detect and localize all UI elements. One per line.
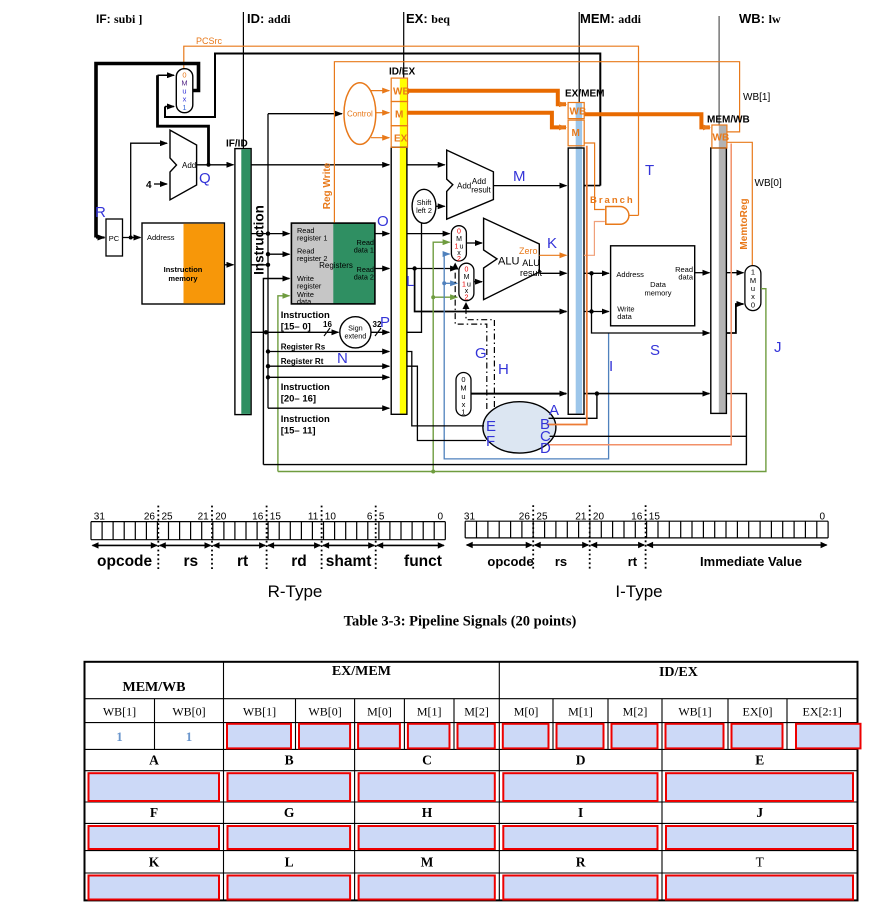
svg-text:R: R: [576, 855, 586, 870]
svg-text:C: C: [422, 753, 432, 768]
svg-text:Instruction: Instruction: [281, 382, 330, 393]
svg-text:Address: Address: [147, 233, 175, 242]
wire branch signal M box to AND gate (orange): [584, 143, 605, 210]
svg-text:0: 0: [819, 512, 825, 523]
wire PCSrc (orange) from branch gate to PC mux select: [184, 46, 639, 215]
svg-text:A: A: [149, 753, 159, 768]
svg-text:data: data: [678, 273, 693, 282]
wire zero to AND gate (orange): [584, 222, 605, 256]
svg-text:D: D: [576, 753, 586, 768]
svg-text:[15– 0]: [15– 0]: [281, 322, 311, 333]
svg-text:I: I: [578, 805, 583, 820]
svg-text:M[2]: M[2]: [623, 705, 648, 719]
wire to Read register 2: [268, 253, 289, 255]
wire PC out branch up to Add: [131, 143, 167, 237]
branch AND gate (orange): [606, 207, 629, 225]
stage divider line ID: [242, 12, 244, 149]
svg-text:5: 5: [379, 512, 385, 523]
thick orange wire M control ID/EX to EX/MEM: [407, 113, 566, 128]
svg-text:31: 31: [464, 512, 476, 523]
svg-text:T: T: [645, 162, 654, 179]
branch adder Add result: [447, 150, 494, 219]
stage divider line WB: [718, 16, 720, 125]
wire Add output to IF/ID: [197, 164, 234, 166]
svg-text:16: 16: [323, 320, 332, 329]
svg-text:WB[1]: WB[1]: [743, 92, 770, 103]
svg-text:M: M: [421, 855, 434, 870]
adder Add (PC+4): [170, 130, 197, 200]
svg-text:MEM/WB: MEM/WB: [707, 115, 750, 126]
wire instruction[20-16]: [268, 376, 389, 378]
svg-text:funct: funct: [404, 553, 442, 570]
svg-text:left 2: left 2: [416, 206, 432, 215]
sign extend unit: [340, 317, 371, 348]
svg-text:J: J: [756, 805, 763, 820]
green forwarding wire vertical: [433, 242, 449, 471]
svg-text:Control: Control: [347, 110, 373, 119]
svg-text:R-Type: R-Type: [268, 582, 323, 601]
svg-text:IF: subi ]: IF: subi ]: [96, 12, 142, 26]
control unit: [344, 83, 376, 145]
svg-text:MEM: addi: MEM: addi: [580, 11, 642, 26]
wire instruction memory out to IF/ID: [224, 264, 233, 266]
svg-text:WB[1]: WB[1]: [243, 705, 276, 719]
svg-text:data: data: [617, 312, 632, 321]
svg-text:WB[0]: WB[0]: [172, 705, 205, 719]
svg-text:EX[0]: EX[0]: [743, 705, 773, 719]
wire instruction[15-0] to sign extend: [251, 331, 338, 333]
wire write-back data (green) down and across: [278, 289, 766, 472]
svg-text:extend: extend: [344, 332, 366, 341]
svg-text:M[1]: M[1]: [568, 705, 593, 719]
svg-text:ID/EX: ID/EX: [659, 665, 698, 680]
svg-text:4: 4: [146, 180, 152, 191]
svg-text:6: 6: [367, 512, 373, 523]
svg-text:I-Type: I-Type: [615, 582, 662, 601]
EX/MEM WB box: [568, 103, 584, 119]
R-type bit cells: [91, 522, 445, 540]
data memory: [611, 246, 695, 326]
svg-text:[15– 11]: [15– 11]: [281, 426, 316, 437]
wire Control to EX box: [371, 137, 389, 139]
wire PC out to instruction memory Address: [123, 237, 141, 239]
forwarding unit ellipse: [483, 402, 556, 453]
wire RegWrite (orange) from MEM/WB WB around top-left into Registers: [334, 62, 739, 223]
stage divider line EX: [403, 12, 405, 78]
wire instruction main tap: [251, 264, 268, 266]
svg-text:EX: beq: EX: beq: [406, 11, 450, 26]
signals table: [85, 662, 858, 901]
svg-text:I: I: [609, 358, 613, 375]
svg-text:0: 0: [465, 267, 469, 274]
svg-text:20: 20: [593, 512, 605, 523]
svg-text:11: 11: [308, 512, 319, 523]
wire instruction[15-11]: [268, 407, 389, 409]
dashed forwarding control to mux B: [466, 304, 494, 407]
blue forwarding wire vertical: [444, 254, 608, 459]
svg-text:result: result: [520, 268, 543, 278]
wire B output (orange) up to EX/MEM M: [547, 146, 587, 425]
forwarding mux A: [451, 226, 466, 261]
wire C output to feedback: [550, 435, 747, 437]
wire Zero to EX/MEM (orange): [539, 254, 566, 256]
wire ALU result MEM/WB to WB mux input 0: [726, 304, 743, 333]
ID/EX M box: [391, 102, 407, 126]
svg-text:ALU: ALU: [498, 256, 519, 268]
svg-text:R: R: [95, 204, 106, 221]
wire Read data 1 out: [375, 233, 389, 235]
svg-text:memory: memory: [644, 289, 671, 298]
wire write register number: RegDst mux out through EX/MEM: [471, 393, 566, 395]
svg-text:Reg Write: Reg Write: [322, 162, 333, 209]
svg-text:K: K: [547, 235, 557, 252]
wire PC+4 to PC mux input 0 (thick): [158, 75, 209, 165]
svg-text:1: 1: [186, 729, 193, 744]
svg-text:memory: memory: [168, 274, 198, 283]
instruction memory: [142, 223, 224, 304]
svg-text:N: N: [337, 350, 348, 367]
wire Register Rt: [268, 365, 389, 367]
svg-text:H: H: [498, 361, 509, 378]
svg-text:WB[1]: WB[1]: [103, 705, 136, 719]
svg-text:16: 16: [631, 512, 643, 523]
svg-text:WB: lw: WB: lw: [739, 11, 781, 26]
svg-text:EX: EX: [394, 134, 408, 145]
svg-text:J: J: [774, 339, 782, 356]
wire write-back data (green) into Write data: [278, 296, 290, 472]
svg-text:K: K: [149, 855, 160, 870]
svg-text:A: A: [549, 402, 559, 419]
svg-text:result: result: [471, 186, 491, 195]
ID/EX EX box: [391, 126, 407, 148]
svg-text:D: D: [540, 440, 551, 457]
svg-text:Add: Add: [182, 161, 196, 170]
forwarding mux B: [459, 263, 474, 301]
svg-text:register 1: register 1: [297, 234, 327, 243]
svg-text:T: T: [756, 855, 765, 870]
svg-text:G: G: [284, 805, 295, 820]
svg-text:L: L: [406, 273, 414, 290]
svg-text:IF/ID: IF/ID: [226, 139, 248, 150]
svg-text:31: 31: [94, 512, 106, 523]
wire write register number feedback: [263, 394, 746, 465]
I-type field separators (dotted): [533, 505, 645, 570]
wire sign-extended immediate to shift left 2: [407, 224, 422, 333]
wire Control to WB box: [371, 90, 389, 92]
wire ALU result down around data memory: [592, 273, 710, 333]
svg-text:M[0]: M[0]: [514, 705, 539, 719]
svg-text:PC: PC: [109, 234, 120, 243]
svg-text:2: 2: [465, 295, 469, 302]
pipeline register ID/EX: [400, 79, 407, 414]
thick orange wire WB control ID/EX to EX/MEM: [408, 91, 567, 105]
wire to Control: [268, 113, 342, 115]
svg-text:M: M: [464, 274, 470, 281]
svg-text:Branch: Branch: [590, 195, 635, 206]
svg-text:ID: addi: ID: addi: [247, 11, 291, 26]
wire Control to M box: [376, 112, 389, 114]
svg-text:Register Rs: Register Rs: [281, 343, 326, 352]
svg-text:21: 21: [198, 512, 210, 523]
svg-text:Add: Add: [457, 182, 471, 191]
svg-text:WB: WB: [713, 133, 730, 144]
wire branch adder out to EX/MEM: [493, 185, 566, 187]
dashed forwarding control to mux A: [455, 265, 487, 410]
wire write data EX/MEM to data memory: [584, 311, 609, 313]
wire Read data 1 to forwarding mux A: [407, 233, 450, 235]
svg-text:EX[2:1]: EX[2:1]: [803, 705, 842, 719]
wire F input (Rt): [407, 366, 486, 440]
svg-text:ID/EX: ID/EX: [389, 67, 415, 78]
svg-text:WB: WB: [393, 87, 410, 98]
wire Read data 2 to forwarding mux B: [407, 268, 457, 270]
I-type field span arrows: [467, 544, 532, 546]
svg-text:Instruction: Instruction: [281, 414, 330, 425]
svg-text:Immediate Value: Immediate Value: [700, 554, 802, 569]
svg-text:15: 15: [270, 512, 282, 523]
WB write-back mux: [745, 266, 761, 311]
pipeline register IF/ID: [235, 149, 251, 415]
svg-text:rd: rd: [291, 553, 307, 570]
wire E input (Rs): [407, 352, 484, 426]
MEM/WB WB box: [712, 125, 727, 148]
svg-text:ALU: ALU: [522, 258, 540, 268]
svg-text:O: O: [377, 213, 389, 230]
wire write register number EX/MEM to MEM/WB: [584, 393, 709, 395]
svg-text:Q: Q: [199, 170, 211, 187]
PC register: [106, 219, 123, 256]
answer boxes rows 2-4: [89, 773, 220, 801]
wire ALU result to data memory Address: [584, 272, 609, 274]
svg-text:M: M: [395, 110, 403, 121]
svg-text:Registers: Registers: [319, 261, 353, 270]
svg-text:rt: rt: [237, 553, 248, 570]
answer boxes row 1: [227, 724, 291, 749]
wire mux B out to ALU: [474, 281, 482, 283]
wire PC+4 through IF/ID to ID/EX: [251, 164, 389, 166]
svg-text:rs: rs: [183, 553, 198, 570]
PC mux: [176, 69, 193, 113]
wire Register Rs: [268, 351, 389, 353]
svg-text:L: L: [285, 855, 294, 870]
wire AND gate output to PCSrc: [629, 214, 639, 216]
svg-text:25: 25: [536, 512, 548, 523]
thick orange wire WB control EX/MEM to MEM/WB: [584, 114, 710, 127]
svg-text:15: 15: [649, 512, 661, 523]
wire to Read register 1: [251, 233, 289, 235]
svg-text:M: M: [513, 168, 526, 185]
svg-text:Table 3-3: Pipeline Signals (2: Table 3-3: Pipeline Signals (20 points): [344, 614, 577, 630]
svg-text:0: 0: [751, 301, 755, 310]
svg-text:F: F: [486, 433, 495, 450]
green forwarding stub to mux B: [433, 296, 457, 298]
svg-text:rt: rt: [628, 554, 638, 569]
svg-text:16: 16: [252, 512, 264, 523]
svg-text:1: 1: [182, 103, 186, 112]
svg-text:H: H: [422, 805, 433, 820]
svg-text:EX/MEM: EX/MEM: [332, 664, 391, 679]
svg-text:2: 2: [457, 256, 461, 263]
svg-text:EX/MEM: EX/MEM: [565, 89, 604, 100]
svg-text:1: 1: [116, 729, 123, 744]
svg-text:PCSrc: PCSrc: [196, 36, 223, 46]
R-type field separators (dotted): [158, 506, 375, 571]
svg-text:10: 10: [325, 512, 337, 523]
svg-text:WB[0]: WB[0]: [308, 705, 341, 719]
registers block: [291, 223, 375, 304]
svg-text:P: P: [380, 314, 390, 331]
svg-text:Register Rt: Register Rt: [281, 357, 324, 366]
EX/MEM M box: [568, 120, 584, 146]
svg-text:Instruction: Instruction: [164, 265, 203, 274]
svg-text:opcode: opcode: [97, 553, 152, 570]
svg-text:M[0]: M[0]: [367, 705, 392, 719]
svg-text:Zero: Zero: [519, 246, 538, 256]
wire shift left 2 to branch adder: [436, 205, 445, 207]
svg-text:G: G: [475, 345, 487, 362]
svg-text:opcode: opcode: [487, 554, 533, 569]
wire Read data MEM/WB to WB mux: [726, 272, 743, 274]
R-type field span arrows: [93, 544, 157, 546]
shift left 2 unit: [412, 189, 436, 223]
svg-text:S: S: [650, 342, 660, 359]
svg-text:shamt: shamt: [326, 553, 372, 570]
svg-text:WB[0]: WB[0]: [755, 178, 782, 189]
svg-text:0: 0: [457, 229, 461, 236]
svg-text:Address: Address: [616, 270, 644, 279]
stage divider line MEM: [578, 12, 580, 148]
svg-text:data 1: data 1: [354, 246, 374, 255]
wire mux A out to ALU: [466, 242, 482, 244]
svg-text:21: 21: [575, 512, 587, 523]
wire sign extend out to ID/EX: [371, 331, 389, 333]
svg-text:25: 25: [162, 512, 174, 523]
wire ALU result to EX/MEM: [539, 272, 566, 274]
svg-text:B: B: [285, 753, 294, 768]
wire branch target after EX/MEM joins feedback: [584, 185, 600, 187]
RegDst mux: [456, 373, 471, 416]
wire A output to write-reg number: [549, 394, 597, 419]
svg-text:F: F: [150, 805, 158, 820]
svg-text:M: M: [456, 236, 462, 243]
svg-text:M: M: [572, 128, 580, 139]
wire PC+4 ID/EX to branch adder: [407, 164, 445, 166]
svg-text:data: data: [297, 297, 312, 306]
ALU: [484, 218, 540, 299]
wire D output (orange) to WB[0]: [549, 144, 732, 445]
I-type bit cells: [465, 521, 828, 538]
svg-text:[20– 16]: [20– 16]: [281, 394, 316, 405]
svg-text:1: 1: [461, 408, 465, 417]
wire PC mux output loop to PC (thick): [96, 64, 199, 238]
wire branch target feedback (from EX/MEM add result) to PC mux input 1: [165, 54, 600, 186]
svg-text:M[2]: M[2]: [464, 705, 489, 719]
svg-text:rs: rs: [555, 554, 567, 569]
svg-text:26: 26: [144, 512, 156, 523]
blue forwarding stub to mux B: [444, 282, 457, 284]
wire MemtoReg WB[0] (orange) to WB mux select: [727, 142, 752, 265]
wire Read data 2 branch to write data path: [415, 269, 567, 312]
svg-text:WB[1]: WB[1]: [678, 705, 711, 719]
instruction bus vertical: [267, 114, 269, 409]
wire Read data 2 out: [375, 268, 389, 270]
svg-text:MEM/WB: MEM/WB: [123, 680, 186, 695]
svg-text:E: E: [755, 753, 764, 768]
svg-text:20: 20: [215, 512, 227, 523]
wire write-register-number feedback into Write register: [263, 279, 289, 465]
wire Read data to MEM/WB: [695, 272, 710, 274]
svg-text:26: 26: [519, 512, 531, 523]
ID/EX WB box: [391, 78, 407, 101]
svg-text:M[1]: M[1]: [417, 705, 442, 719]
svg-text:WB: WB: [570, 107, 587, 118]
svg-text:data 2: data 2: [354, 273, 374, 282]
pipeline register EX/MEM: [576, 103, 582, 414]
svg-text:MemtoReg: MemtoReg: [739, 198, 750, 249]
pipeline register MEM/WB: [719, 125, 727, 413]
svg-text:0: 0: [437, 512, 443, 523]
